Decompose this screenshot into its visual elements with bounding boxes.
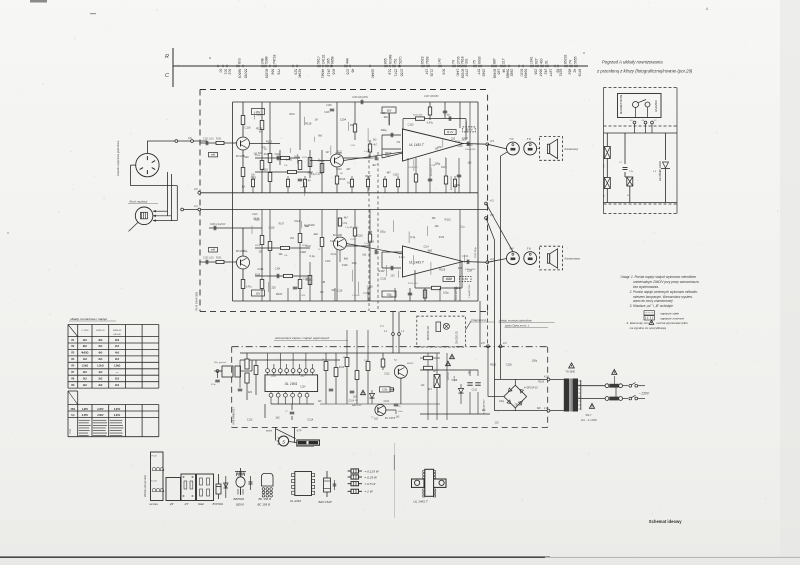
svg-text:C114: C114 bbox=[467, 271, 473, 273]
svg-text:2. Pomiar napięć zmiennych wy: 2. Pomiar napięć zmiennych wykonano mili… bbox=[629, 290, 698, 294]
svg-text:BD/BC: BD/BC bbox=[407, 363, 414, 365]
svg-text:C118: C118 bbox=[455, 142, 461, 144]
svg-text:R: R bbox=[165, 54, 169, 60]
svg-text:R208: R208 bbox=[255, 245, 261, 247]
svg-text:444: 444 bbox=[346, 58, 350, 64]
svg-text:60348: 60348 bbox=[389, 54, 393, 64]
svg-text:C116: C116 bbox=[380, 113, 386, 115]
svg-text:5388: 5388 bbox=[265, 56, 269, 64]
svg-text:Wej. gramof.: Wej. gramof. bbox=[214, 362, 227, 364]
svg-text:Kanał lewy: Kanał lewy bbox=[565, 147, 579, 151]
svg-text:R115: R115 bbox=[256, 127, 263, 131]
svg-text:R113: R113 bbox=[385, 151, 392, 155]
svg-text:2k2: 2k2 bbox=[314, 232, 319, 236]
svg-text:100µ: 100µ bbox=[454, 183, 460, 187]
svg-text:napięcie zmienne: napięcie zmienne bbox=[660, 317, 684, 321]
svg-text:C118: C118 bbox=[506, 363, 512, 366]
svg-text:751: 751 bbox=[394, 58, 398, 64]
svg-text:C116: C116 bbox=[393, 174, 399, 177]
svg-text:Start: Start bbox=[198, 502, 204, 506]
svg-text:2k2: 2k2 bbox=[276, 416, 281, 419]
svg-text:1k5: 1k5 bbox=[458, 267, 463, 270]
svg-text:803: 803 bbox=[238, 58, 242, 64]
svg-text:C114: C114 bbox=[331, 254, 337, 256]
svg-text:100µ: 100µ bbox=[434, 161, 440, 165]
svg-text:4,2: 4,2 bbox=[490, 257, 494, 261]
svg-text:220µ/16V: 220µ/16V bbox=[431, 167, 433, 176]
svg-text:2,80V: 2,80V bbox=[97, 414, 104, 417]
svg-text:9667: 9667 bbox=[539, 69, 543, 77]
svg-text:220: 220 bbox=[248, 391, 253, 394]
svg-text:UL 1481 T: UL 1481 T bbox=[409, 143, 425, 147]
svg-text:C110: C110 bbox=[350, 145, 356, 147]
svg-text:BC 158 B: BC 158 B bbox=[385, 417, 396, 420]
svg-text:2k2: 2k2 bbox=[83, 371, 88, 374]
svg-text:75: 75 bbox=[473, 60, 477, 64]
svg-text:TS-16/B: TS-16/B bbox=[566, 371, 576, 374]
svg-text:0,8V: 0,8V bbox=[462, 277, 468, 281]
svg-text:6k8: 6k8 bbox=[368, 230, 373, 234]
svg-text:B,2V: B,2V bbox=[447, 130, 453, 134]
svg-text:C 1029: C 1029 bbox=[81, 330, 89, 332]
svg-text:100µ: 100µ bbox=[381, 128, 387, 132]
svg-text:C114: C114 bbox=[307, 419, 313, 422]
svg-text:wkł: wkł bbox=[211, 248, 215, 252]
svg-text:2k4: 2k4 bbox=[115, 358, 120, 361]
svg-text:100µ: 100µ bbox=[352, 263, 358, 265]
svg-text:100µ: 100µ bbox=[467, 142, 473, 146]
svg-text:C118: C118 bbox=[318, 160, 324, 163]
svg-text:2k4: 2k4 bbox=[115, 345, 120, 348]
svg-text:UL-1901: UL-1901 bbox=[290, 499, 301, 503]
svg-text:110 →A / 220V: 110 →A / 220V bbox=[581, 419, 597, 422]
svg-text:BAP 152P: BAP 152P bbox=[319, 500, 332, 504]
svg-text:wt.zas.: wt.zas. bbox=[150, 502, 159, 506]
svg-text:R216 470: R216 470 bbox=[408, 283, 418, 285]
svg-text:331: 331 bbox=[465, 58, 469, 64]
svg-text:C116: C116 bbox=[247, 419, 253, 421]
svg-text:Ruch regulacji: Ruch regulacji bbox=[130, 200, 148, 204]
svg-text:WZM-40: WZM-40 bbox=[113, 330, 122, 332]
svg-text:301: 301 bbox=[224, 69, 228, 75]
svg-text:BC 158 B: BC 158 B bbox=[258, 503, 270, 507]
svg-text:2k2: 2k2 bbox=[98, 384, 103, 387]
svg-text:44681: 44681 bbox=[321, 69, 325, 79]
svg-text:69493: 69493 bbox=[524, 69, 528, 79]
svg-text:0,1µ: 0,1µ bbox=[364, 151, 369, 153]
svg-text:18V: 18V bbox=[256, 292, 261, 296]
svg-text:R101: R101 bbox=[216, 258, 222, 260]
svg-text:bez wysterowania.: bez wysterowania. bbox=[633, 285, 659, 289]
svg-text:74718: 74718 bbox=[273, 54, 277, 64]
svg-text:91: 91 bbox=[545, 60, 549, 64]
svg-text:C108: C108 bbox=[326, 105, 332, 107]
svg-text:,15′: ,15′ bbox=[184, 502, 189, 506]
svg-text:8261: 8261 bbox=[559, 69, 563, 77]
svg-text:217: 217 bbox=[502, 58, 506, 64]
svg-text:R113: R113 bbox=[445, 219, 451, 222]
svg-text:4,6: 4,6 bbox=[188, 136, 192, 140]
svg-text:4k5: 4k5 bbox=[115, 352, 120, 355]
svg-text:3k0: 3k0 bbox=[83, 345, 88, 348]
svg-text:5655: 5655 bbox=[574, 56, 578, 64]
svg-text:3. Klawisze „wł." i „B" wciśni: 3. Klawisze „wł." i „B" wciśnięte bbox=[630, 304, 673, 308]
svg-text:C110: C110 bbox=[384, 373, 390, 375]
svg-text:1,3kΩ: 1,3kΩ bbox=[97, 365, 104, 368]
svg-text:C114: C114 bbox=[257, 267, 264, 271]
svg-text:296: 296 bbox=[534, 69, 538, 75]
svg-text:UL 1481 T: UL 1481 T bbox=[409, 261, 425, 265]
svg-text:74: 74 bbox=[569, 60, 573, 64]
svg-text:R115: R115 bbox=[439, 267, 446, 271]
svg-text:3k0: 3k0 bbox=[98, 339, 103, 342]
svg-text:C118: C118 bbox=[300, 250, 307, 254]
svg-text:100µ: 100µ bbox=[305, 278, 311, 282]
svg-text:C118: C118 bbox=[457, 146, 463, 148]
svg-text:18V: 18V bbox=[387, 109, 392, 113]
svg-text:2k4: 2k4 bbox=[98, 358, 103, 361]
svg-text:b.C.B: b.C.B bbox=[152, 481, 158, 483]
svg-text:3k0: 3k0 bbox=[115, 339, 120, 342]
svg-text:42: 42 bbox=[573, 69, 577, 73]
svg-text:R415 56k: R415 56k bbox=[413, 115, 423, 117]
svg-text:2767: 2767 bbox=[465, 69, 469, 77]
svg-text:2k2: 2k2 bbox=[115, 377, 120, 380]
svg-text:80928: 80928 bbox=[461, 69, 465, 79]
svg-text:układy montażowe i napięć: układy montażowe i napięć bbox=[70, 317, 108, 321]
svg-text:862: 862 bbox=[568, 69, 572, 75]
svg-text:490: 490 bbox=[540, 58, 544, 64]
svg-text:1440: 1440 bbox=[456, 69, 460, 77]
svg-text:MOSTEK GR.: MOSTEK GR. bbox=[428, 325, 430, 340]
svg-text:C107 220/25V: C107 220/25V bbox=[424, 96, 439, 98]
svg-text:167: 167 bbox=[425, 69, 429, 75]
svg-text:0,47µ: 0,47µ bbox=[341, 223, 347, 225]
svg-text:0,47µ: 0,47µ bbox=[427, 121, 434, 124]
svg-text:2k2: 2k2 bbox=[83, 377, 88, 380]
svg-text:59883: 59883 bbox=[506, 69, 510, 79]
svg-text:Widok elementów: Widok elementów bbox=[143, 474, 147, 497]
svg-text:R119: R119 bbox=[538, 380, 544, 383]
svg-text:P.C.B: P.C.B bbox=[152, 456, 158, 458]
svg-text:1M: 1M bbox=[321, 280, 325, 284]
svg-text:Pogrzed A układy rownizowania: Pogrzed A układy rownizowania bbox=[602, 60, 663, 65]
svg-text:1M: 1M bbox=[314, 119, 317, 121]
svg-text:1M: 1M bbox=[432, 216, 436, 220]
svg-text:Schemat ideowy: Schemat ideowy bbox=[649, 519, 682, 524]
svg-text:220: 220 bbox=[271, 286, 276, 289]
svg-text:6523: 6523 bbox=[421, 56, 425, 64]
svg-text:R107: R107 bbox=[365, 175, 372, 178]
svg-text:577: 577 bbox=[477, 69, 481, 75]
svg-text:GNIAZDO: GNIAZDO bbox=[654, 100, 658, 112]
svg-text:46: 46 bbox=[351, 69, 355, 73]
svg-text:WZM-20: WZM-20 bbox=[96, 330, 105, 332]
svg-text:68609: 68609 bbox=[238, 69, 242, 79]
svg-text:0,1µ: 0,1µ bbox=[307, 170, 313, 174]
svg-text:74: 74 bbox=[452, 60, 456, 64]
svg-text:uniwersalnym 20kΩ/V przy prac: uniwersalnym 20kΩ/V przy pracy wzmacniac… bbox=[633, 280, 699, 284]
svg-text:100µ: 100µ bbox=[271, 376, 277, 378]
svg-text:C110: C110 bbox=[408, 123, 414, 126]
svg-text:R119: R119 bbox=[256, 114, 262, 116]
svg-text:2,2µ/NP C211: 2,2µ/NP C211 bbox=[345, 227, 359, 229]
svg-text:2k2: 2k2 bbox=[98, 377, 103, 380]
svg-text:R119: R119 bbox=[289, 114, 295, 116]
svg-text:WK-7: WK-7 bbox=[586, 414, 593, 417]
svg-text:C118: C118 bbox=[330, 240, 336, 243]
svg-text:1k3: 1k3 bbox=[83, 358, 88, 361]
svg-text:2413: 2413 bbox=[327, 69, 331, 77]
svg-text:BYP401: BYP401 bbox=[213, 502, 224, 506]
svg-text:602: 602 bbox=[228, 69, 232, 75]
svg-text:76-8 S4/80-017: 76-8 S4/80-017 bbox=[232, 407, 236, 425]
svg-text:R113: R113 bbox=[340, 178, 346, 181]
svg-text:C114: C114 bbox=[424, 247, 430, 249]
svg-text:C116: C116 bbox=[269, 226, 275, 229]
svg-text:668: 668 bbox=[271, 69, 275, 75]
svg-text:2,90V: 2,90V bbox=[114, 414, 121, 417]
svg-text:100µ: 100µ bbox=[499, 401, 505, 403]
svg-text:układu montażu głośników: układu montażu głośników bbox=[499, 319, 533, 323]
svg-text:C104: C104 bbox=[275, 269, 281, 271]
svg-text:R113: R113 bbox=[266, 140, 272, 143]
svg-text:R119: R119 bbox=[439, 237, 445, 239]
svg-text:BC149B: BC149B bbox=[333, 234, 342, 237]
svg-text:4k7: 4k7 bbox=[344, 216, 349, 219]
svg-text:4,4: 4,4 bbox=[194, 204, 198, 208]
svg-text:887: 887 bbox=[493, 58, 497, 64]
svg-text:7693: 7693 bbox=[426, 56, 430, 64]
svg-text:(patrz Opisy na str...): (patrz Opisy na str...) bbox=[505, 324, 529, 328]
svg-text:220: 220 bbox=[451, 138, 456, 141]
svg-text:C206 2,2µ/64V: C206 2,2µ/64V bbox=[210, 224, 226, 226]
svg-text:80269: 80269 bbox=[265, 69, 269, 79]
svg-text:806: 806 bbox=[332, 69, 336, 75]
svg-text:C104: C104 bbox=[340, 117, 347, 121]
svg-text:5270: 5270 bbox=[399, 56, 403, 64]
svg-text:C110: C110 bbox=[380, 278, 386, 281]
svg-text:4k05Ω: 4k05Ω bbox=[81, 352, 88, 355]
svg-text:2683: 2683 bbox=[482, 69, 486, 77]
svg-text:205: 205 bbox=[346, 69, 350, 75]
svg-text:2k2: 2k2 bbox=[384, 115, 389, 119]
svg-text:1M: 1M bbox=[241, 186, 244, 189]
svg-text:R107: R107 bbox=[385, 155, 391, 157]
svg-text:= 0,25 W: = 0,25 W bbox=[365, 475, 379, 479]
svg-text:518: 518 bbox=[388, 69, 392, 75]
svg-text:uwagi: uwagi bbox=[70, 428, 72, 434]
svg-text:C101 0,01: C101 0,01 bbox=[203, 258, 214, 260]
svg-text:4,7P: 4,7P bbox=[297, 430, 302, 433]
svg-text:4,9: 4,9 bbox=[194, 187, 198, 191]
svg-text:C110: C110 bbox=[336, 169, 342, 171]
svg-text:1,5kΩ: 1,5kΩ bbox=[82, 365, 89, 368]
svg-text:4k7: 4k7 bbox=[372, 163, 377, 167]
svg-text:C110: C110 bbox=[325, 261, 331, 263]
svg-text:S: S bbox=[282, 440, 285, 445]
svg-text:R113: R113 bbox=[339, 367, 345, 369]
svg-text:220: 220 bbox=[244, 156, 249, 159]
svg-text:2128: 2128 bbox=[430, 69, 434, 77]
svg-text:UL 1901: UL 1901 bbox=[285, 382, 298, 386]
svg-text:100µ: 100µ bbox=[532, 359, 538, 362]
svg-text:185: 185 bbox=[497, 69, 501, 75]
svg-text:ZW GD/10D: ZW GD/10D bbox=[457, 331, 459, 344]
svg-text:BAP152P: BAP152P bbox=[352, 404, 362, 407]
svg-text:0,47µ: 0,47µ bbox=[399, 257, 405, 259]
svg-text:= 0,125 W: = 0,125 W bbox=[365, 469, 380, 473]
svg-text:2,2k: 2,2k bbox=[364, 360, 368, 362]
svg-text:94: 94 bbox=[502, 69, 506, 73]
svg-text:BC 158,B: BC 158,B bbox=[259, 497, 271, 501]
svg-text:C210: C210 bbox=[350, 239, 356, 241]
svg-text:242: 242 bbox=[544, 69, 548, 75]
svg-text:= 0,5 W: = 0,5 W bbox=[365, 482, 377, 486]
svg-text:2k2: 2k2 bbox=[83, 384, 88, 387]
svg-text:C101 0,01: C101 0,01 bbox=[203, 139, 214, 141]
svg-text:wkł: wkł bbox=[211, 153, 215, 157]
svg-text:2,45V: 2,45V bbox=[82, 414, 89, 417]
svg-text:UL 1481 T: UL 1481 T bbox=[413, 500, 429, 504]
svg-text:2k2: 2k2 bbox=[83, 339, 88, 342]
svg-text:C204: C204 bbox=[300, 295, 306, 297]
svg-text:4×ZIP10P-20: 4×ZIP10P-20 bbox=[524, 387, 538, 390]
svg-text:C116: C116 bbox=[336, 289, 342, 292]
svg-text:n: n bbox=[583, 51, 585, 55]
svg-text:R101: R101 bbox=[216, 139, 222, 141]
svg-text:76-8 S4/4-358: 76-8 S4/4-358 bbox=[195, 292, 199, 311]
svg-text:0,1µ: 0,1µ bbox=[410, 235, 416, 239]
svg-text:R107: R107 bbox=[379, 269, 386, 273]
svg-text:2k4: 2k4 bbox=[98, 345, 103, 348]
svg-text:1k2: 1k2 bbox=[98, 371, 103, 374]
svg-text:mierzem lampowym. Wzmacniacz: mierzem lampowym. Wzmacniacz wystero- bbox=[633, 295, 693, 299]
svg-text:0,47µ: 0,47µ bbox=[286, 159, 293, 162]
svg-text:4. Elementy ozn.: 4. Elementy ozn. bbox=[627, 321, 650, 325]
svg-text:Uwagi: 1. Pomiar napięć stały: Uwagi: 1. Pomiar napięć stałych wykonano… bbox=[621, 275, 697, 279]
svg-text:C104: C104 bbox=[274, 153, 281, 156]
svg-text:040-040: 040-040 bbox=[113, 334, 121, 336]
svg-text:R113: R113 bbox=[264, 154, 270, 156]
svg-text:C118: C118 bbox=[294, 220, 300, 223]
svg-text:C116: C116 bbox=[367, 284, 374, 288]
svg-text:ZIP-ZI: ZIP-ZI bbox=[515, 405, 522, 407]
svg-text:778: 778 bbox=[277, 69, 281, 75]
svg-text:C116: C116 bbox=[384, 401, 390, 403]
svg-text:47k: 47k bbox=[437, 145, 442, 149]
svg-text:C215 220µ: C215 220µ bbox=[475, 247, 477, 258]
svg-text:R116 470: R116 470 bbox=[408, 167, 418, 169]
svg-text:C118: C118 bbox=[447, 279, 453, 281]
svg-text:24132: 24132 bbox=[322, 54, 326, 64]
svg-text:4k7: 4k7 bbox=[386, 171, 391, 175]
svg-text:BZP620: BZP620 bbox=[448, 371, 450, 380]
svg-text:2,2µ/NP C211: 2,2µ/NP C211 bbox=[469, 284, 471, 298]
svg-text:0,1µ: 0,1µ bbox=[310, 254, 316, 258]
svg-text:R119: R119 bbox=[305, 121, 312, 125]
svg-text:55Ω: 55Ω bbox=[71, 409, 76, 411]
svg-text:5810: 5810 bbox=[317, 56, 321, 64]
svg-text:C116: C116 bbox=[452, 379, 458, 382]
svg-text:6858: 6858 bbox=[331, 56, 335, 64]
svg-text:100k: 100k bbox=[382, 389, 388, 392]
svg-text:= 2 W: = 2 W bbox=[365, 490, 374, 494]
svg-text:C110: C110 bbox=[309, 224, 315, 227]
svg-text:80438: 80438 bbox=[493, 69, 497, 79]
svg-text:można wymieniać tylko: można wymieniać tylko bbox=[656, 321, 688, 325]
svg-text:wolne: wolne bbox=[266, 431, 273, 433]
svg-text:C116: C116 bbox=[472, 389, 478, 391]
svg-text:C110: C110 bbox=[252, 214, 258, 216]
svg-text:2055: 2055 bbox=[400, 69, 404, 77]
svg-text:909: 909 bbox=[442, 69, 446, 75]
svg-text:42940: 42940 bbox=[298, 69, 302, 79]
svg-text:627: 627 bbox=[535, 58, 539, 64]
svg-text:C116: C116 bbox=[357, 234, 363, 237]
svg-text:0,47µ: 0,47µ bbox=[363, 293, 369, 295]
svg-text:2k2: 2k2 bbox=[461, 138, 466, 141]
svg-text:1k5: 1k5 bbox=[467, 161, 472, 164]
svg-text:1k5: 1k5 bbox=[300, 374, 305, 377]
svg-text:4k5: 4k5 bbox=[98, 352, 103, 355]
svg-text:na zgodne ze specyfikacją: na zgodne ze specyfikacją bbox=[630, 326, 667, 330]
svg-text:R115: R115 bbox=[251, 177, 257, 179]
svg-text:4,3: 4,3 bbox=[490, 199, 494, 203]
svg-text:0,1µ: 0,1µ bbox=[242, 250, 247, 253]
svg-text:z przesłoną z kliszy (fotograf: z przesłoną z kliszy (fotograficznej/row… bbox=[596, 69, 693, 74]
svg-text:2,2µ/NP: 2,2µ/NP bbox=[352, 295, 360, 297]
svg-text:C116: C116 bbox=[368, 241, 374, 244]
svg-text:1641: 1641 bbox=[530, 56, 534, 64]
svg-text:RP: RP bbox=[433, 371, 437, 373]
svg-text:1,3kΩ: 1,3kΩ bbox=[114, 365, 121, 368]
svg-text:6933: 6933 bbox=[478, 56, 482, 64]
svg-text:Fragment A: Fragment A bbox=[471, 318, 486, 322]
svg-text:100µ: 100µ bbox=[380, 230, 386, 233]
svg-text:1M: 1M bbox=[467, 372, 470, 374]
svg-text:napięcie stałe: napięcie stałe bbox=[660, 312, 679, 316]
svg-text:C104: C104 bbox=[300, 386, 306, 388]
svg-text:0,1µ: 0,1µ bbox=[306, 178, 312, 182]
svg-text:C116: C116 bbox=[245, 127, 251, 130]
svg-text:2,30V: 2,30V bbox=[114, 408, 121, 411]
svg-text:1M: 1M bbox=[350, 124, 353, 127]
svg-text:4k7: 4k7 bbox=[428, 388, 433, 391]
svg-text:C116: C116 bbox=[253, 216, 260, 220]
svg-text:R112: R112 bbox=[302, 157, 308, 159]
svg-text:60: 60 bbox=[219, 69, 223, 73]
svg-text:C110: C110 bbox=[262, 168, 268, 171]
svg-text:4k7: 4k7 bbox=[346, 168, 351, 171]
svg-text:C138 220µ/25V: C138 220µ/25V bbox=[352, 97, 368, 99]
svg-text:wzmacniacz zapisu i napięć wyj: wzmacniacz zapisu i napięć wyjściowych bbox=[275, 336, 330, 340]
svg-text:Kanał prawy: Kanał prawy bbox=[565, 257, 581, 261]
svg-text:100n: 100n bbox=[398, 411, 402, 413]
svg-text:Gniazdo wejściowe gramofonu: Gniazdo wejściowe gramofonu bbox=[116, 140, 120, 176]
svg-text:4,2: 4,2 bbox=[503, 341, 507, 345]
svg-text:MAGNETOFON: MAGNETOFON bbox=[619, 95, 623, 114]
svg-text:2571: 2571 bbox=[394, 69, 398, 77]
svg-text:C116: C116 bbox=[324, 112, 330, 114]
svg-text:22k: 22k bbox=[343, 357, 346, 359]
svg-text:4,5: 4,5 bbox=[490, 139, 494, 143]
svg-text:2882: 2882 bbox=[510, 69, 514, 77]
svg-text:1k: 1k bbox=[322, 359, 324, 361]
svg-text:529: 529 bbox=[294, 69, 298, 75]
svg-text:6k8: 6k8 bbox=[428, 249, 433, 253]
svg-text:BZP620 D556: BZP620 D556 bbox=[451, 175, 453, 190]
